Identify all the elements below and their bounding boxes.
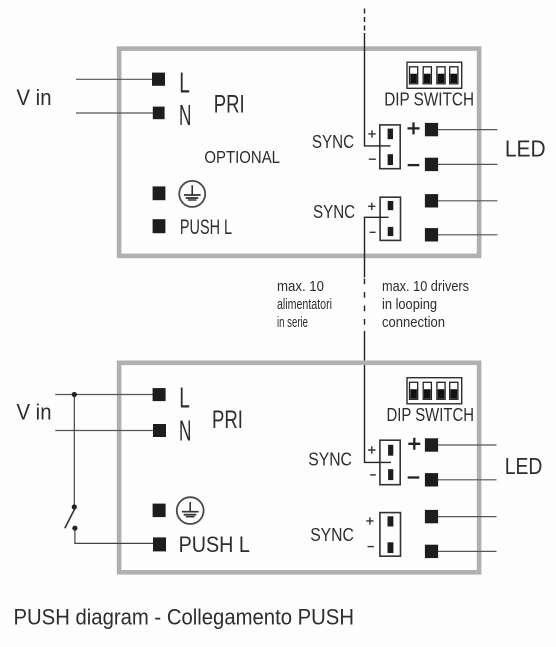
svg-text:LED: LED	[505, 453, 543, 479]
svg-text:in serie: in serie	[277, 315, 308, 331]
svg-text:SYNC: SYNC	[308, 449, 352, 470]
svg-text:SYNC: SYNC	[310, 524, 354, 545]
svg-text:PUSH L: PUSH L	[180, 215, 232, 239]
svg-text:max. 10 drivers: max. 10 drivers	[382, 279, 469, 295]
svg-text:SYNC: SYNC	[312, 131, 354, 152]
svg-text:V in: V in	[17, 400, 52, 425]
svg-text:max. 10: max. 10	[277, 279, 324, 295]
svg-text:N: N	[179, 100, 191, 132]
svg-text:alimentatori: alimentatori	[277, 297, 332, 313]
svg-text:L: L	[179, 68, 190, 100]
svg-text:LED: LED	[505, 136, 546, 162]
svg-text:DIP SWITCH: DIP SWITCH	[387, 404, 475, 425]
svg-text:PRI: PRI	[212, 406, 243, 434]
svg-text:L: L	[179, 383, 190, 415]
svg-text:V in: V in	[17, 85, 52, 110]
svg-text:connection: connection	[382, 315, 445, 331]
svg-text:SYNC: SYNC	[313, 201, 355, 222]
svg-text:PRI: PRI	[214, 91, 245, 119]
svg-text:DIP SWITCH: DIP SWITCH	[384, 88, 474, 109]
svg-text:PUSH L: PUSH L	[179, 532, 250, 557]
svg-text:in looping: in looping	[382, 297, 437, 313]
svg-text:PUSH diagram - Collegamento PU: PUSH diagram - Collegamento PUSH	[14, 604, 355, 629]
svg-text:OPTIONAL: OPTIONAL	[204, 147, 280, 167]
svg-text:N: N	[179, 416, 191, 448]
